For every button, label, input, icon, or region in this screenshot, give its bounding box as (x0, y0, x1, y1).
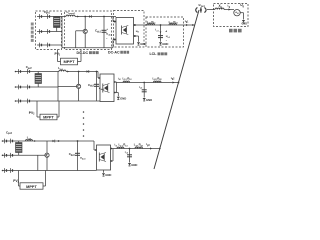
svg-text:MPPT: MPPT (63, 59, 75, 64)
svg-text:i3: i3 (116, 145, 118, 147)
svg-text:GND: GND (120, 97, 126, 101)
svg-text:DC-AC: DC-AC (108, 51, 120, 55)
svg-text:GND: GND (131, 163, 137, 167)
svg-text:GND: GND (105, 173, 111, 177)
svg-text:GND: GND (242, 23, 248, 26)
svg-text:LCL: LCL (150, 52, 158, 56)
svg-text:GND: GND (140, 42, 146, 46)
svg-text:-: - (166, 38, 167, 42)
svg-text:+: + (106, 27, 108, 31)
svg-text:MPPT: MPPT (26, 185, 37, 189)
svg-text:GND: GND (146, 98, 152, 102)
svg-text:+: + (165, 29, 167, 33)
svg-text:MPPT: MPPT (43, 116, 54, 120)
svg-text:-: - (106, 36, 107, 40)
svg-text:GND: GND (162, 42, 168, 46)
svg-text:DC-DC: DC-DC (77, 51, 89, 55)
svg-text:boost1: boost1 (69, 12, 77, 15)
svg-text:i2: i2 (119, 79, 121, 81)
